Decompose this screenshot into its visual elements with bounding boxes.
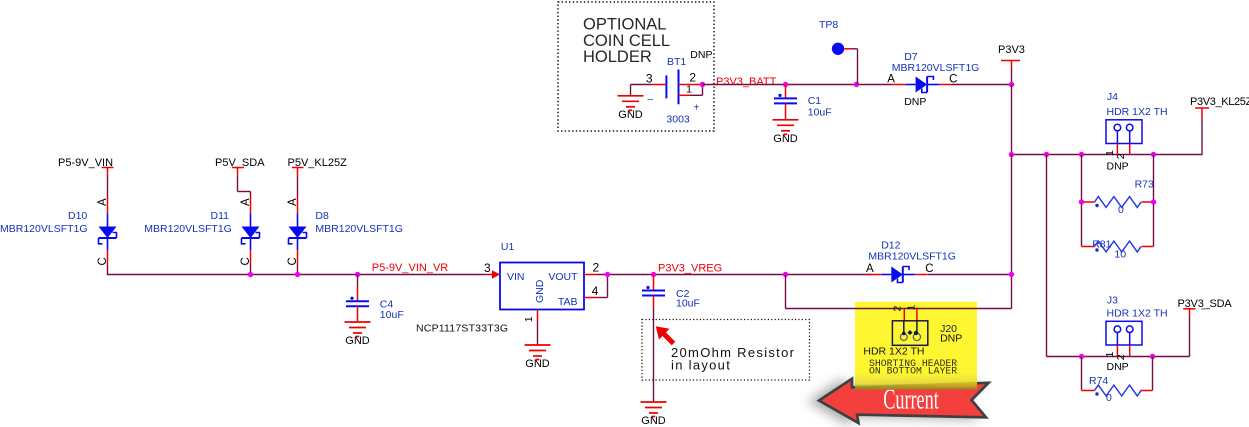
junction P3V3 corner	[1009, 82, 1014, 87]
junction D12 left	[783, 272, 788, 277]
wire C2 to ground	[653, 296, 655, 309]
note box 20mOhm	[642, 320, 810, 381]
svg-text:DNP: DNP	[904, 96, 926, 108]
svg-text:GND: GND	[534, 279, 546, 303]
connector J3	[1106, 321, 1142, 345]
junction D8 bus	[295, 272, 300, 277]
svg-text:–: –	[648, 94, 654, 105]
svg-text:DNP: DNP	[1107, 361, 1129, 373]
wire P3V3_KL25Z stub	[1195, 107, 1209, 109]
svg-text:GND: GND	[641, 415, 666, 427]
resistor R73	[1082, 197, 1154, 208]
svg-text:D10: D10	[68, 210, 87, 222]
svg-text:A: A	[287, 198, 299, 206]
svg-text:C: C	[925, 263, 933, 275]
svg-text:1: 1	[686, 84, 692, 96]
svg-text:P5-9V_VIN_VR: P5-9V_VIN_VR	[372, 262, 448, 274]
J20 pin 2 wire	[903, 309, 905, 321]
svg-text:3: 3	[484, 261, 491, 275]
wire C1 to ground	[785, 103, 787, 119]
highlight yellow box	[855, 302, 977, 390]
junction R73 right	[1151, 199, 1156, 204]
svg-text:3: 3	[646, 72, 653, 86]
capacitor C2 wire	[653, 275, 655, 291]
svg-text:C: C	[97, 257, 109, 265]
svg-text:A: A	[887, 73, 895, 85]
wire J3 feed	[1046, 155, 1048, 357]
U1 pin 3 wire	[486, 274, 493, 276]
svg-text:10uF: 10uF	[380, 309, 404, 321]
J4 pin 1 wire	[1116, 144, 1118, 155]
svg-text:2: 2	[892, 306, 904, 312]
ground C2	[641, 402, 667, 417]
J3 pin 1 wire	[1116, 345, 1118, 357]
U1 pin 2 wire	[584, 274, 598, 276]
junction TP8 tap	[854, 82, 859, 87]
junction bus 1011	[1009, 152, 1014, 157]
resistor R81	[1082, 241, 1154, 252]
BT1 pin 2 wire	[679, 84, 701, 86]
svg-text:DNP: DNP	[940, 332, 962, 344]
svg-text:HDR 1X2 TH: HDR 1X2 TH	[1107, 308, 1168, 320]
ground C1	[773, 120, 799, 135]
svg-text:C: C	[240, 257, 252, 265]
junction D11 bus	[248, 272, 253, 277]
svg-text:TAB: TAB	[558, 296, 578, 308]
junction J3 bus left	[1079, 354, 1084, 359]
capacitor C1	[774, 94, 797, 104]
wire P5-9V_VIN stub	[102, 167, 114, 169]
svg-text:4: 4	[592, 284, 599, 298]
svg-text:VIN: VIN	[507, 271, 525, 283]
resistor R74	[1082, 385, 1153, 396]
svg-text:HDR 1X2 TH: HDR 1X2 TH	[1107, 106, 1168, 118]
svg-text:P3V3_SDA: P3V3_SDA	[1178, 298, 1233, 310]
junction J3 bus right	[1150, 354, 1155, 359]
junction C1 tap	[783, 82, 788, 87]
current arrow banner	[819, 379, 989, 423]
svg-text:MBR120VLSFT1G: MBR120VLSFT1G	[892, 62, 980, 74]
svg-text:1: 1	[523, 316, 535, 322]
wire right vertical	[1011, 155, 1013, 309]
U1 pin 4 wire	[584, 297, 599, 299]
wire R right	[1153, 155, 1155, 247]
ground U1	[525, 345, 551, 360]
wire P5V_SDA stub	[232, 167, 244, 169]
svg-text:GND: GND	[525, 358, 550, 370]
svg-text:P3V3_VREG: P3V3_VREG	[658, 263, 722, 275]
svg-text:0: 0	[1118, 204, 1124, 216]
connector J20	[892, 321, 927, 346]
svg-text:10: 10	[1114, 249, 1126, 261]
junction D12 right	[1009, 272, 1014, 277]
wire D11 to bus	[250, 265, 252, 275]
wire D8 to bus	[297, 265, 299, 275]
svg-text:A: A	[97, 198, 109, 206]
wire P3V3 bus	[1012, 154, 1203, 156]
svg-text:BT1: BT1	[667, 56, 686, 68]
J3 pin 2 wire	[1129, 345, 1131, 357]
U1 pin 1 wire	[537, 310, 539, 323]
regulator U1 box	[500, 263, 584, 310]
svg-text:2: 2	[689, 71, 696, 85]
junction bus 1153	[1151, 152, 1156, 157]
net stub underscore	[1201, 308, 1206, 310]
svg-text:A: A	[866, 263, 874, 275]
svg-text:P3V3: P3V3	[998, 44, 1025, 56]
svg-text:GND: GND	[345, 335, 370, 347]
wire D12 to right	[928, 274, 1011, 276]
svg-text:NCP1117ST33T3G: NCP1117ST33T3G	[416, 323, 508, 335]
junction C4 bus	[355, 272, 360, 277]
capacitor C2	[642, 286, 665, 296]
svg-text:1: 1	[906, 305, 918, 311]
BT1 pin 1 wire	[679, 94, 691, 96]
svg-text:1: 1	[1104, 150, 1116, 156]
diode D10	[99, 197, 117, 265]
svg-text:MBR120VLSFT1G: MBR120VLSFT1G	[868, 250, 956, 262]
junction bus 1081	[1079, 152, 1084, 157]
J20 pin 1 wire	[916, 309, 918, 321]
wire P3V3 stub	[1001, 60, 1020, 62]
diode D8	[289, 197, 307, 265]
svg-text:in layout: in layout	[671, 358, 731, 373]
testpoint TP8	[832, 43, 844, 55]
svg-text:P3V3_KL25Z: P3V3_KL25Z	[1190, 96, 1249, 108]
junction C2 bus	[651, 272, 656, 277]
svg-text:MBR120VLSFT1G: MBR120VLSFT1G	[315, 223, 403, 235]
note arrow red	[663, 333, 674, 344]
wire P3V3 down	[1011, 85, 1013, 155]
svg-text:GND: GND	[618, 109, 643, 121]
svg-text:MBR120VLSFT1G: MBR120VLSFT1G	[0, 223, 88, 235]
svg-text:MBR120VLSFT1G: MBR120VLSFT1G	[144, 223, 232, 235]
note box coin cell	[558, 2, 714, 131]
junction pin2 bus	[605, 272, 610, 277]
wire R74 left	[1081, 357, 1083, 391]
wire P5V_KL25Z stub	[292, 167, 304, 169]
svg-text:10uF: 10uF	[808, 106, 832, 118]
junction BT1 out	[700, 82, 705, 87]
wire VREG bus	[598, 274, 871, 276]
diode D11	[242, 197, 260, 265]
svg-text:3003: 3003	[666, 114, 690, 126]
wire C4 to ground	[357, 306, 359, 322]
svg-text:ON BOTTOM LAYER: ON BOTTOM LAYER	[869, 366, 957, 377]
svg-text:2: 2	[593, 260, 600, 274]
svg-text:1: 1	[1104, 352, 1116, 358]
connector J4	[1106, 120, 1142, 144]
svg-text:D7: D7	[904, 51, 918, 63]
diode D12	[867, 267, 928, 283]
svg-text:OPTIONAL: OPTIONAL	[583, 16, 666, 34]
svg-text:D11: D11	[211, 210, 230, 222]
TP8 wire	[844, 48, 851, 50]
svg-text:R73: R73	[1135, 178, 1154, 190]
svg-text:HDR 1X2 TH: HDR 1X2 TH	[863, 346, 924, 358]
svg-text:DNP: DNP	[690, 49, 712, 61]
svg-text:J3: J3	[1107, 295, 1118, 307]
svg-text:2: 2	[1115, 354, 1127, 360]
wire D7 to P3V3	[952, 84, 1012, 86]
wire battery bus	[703, 84, 892, 86]
svg-text:U1: U1	[501, 241, 515, 253]
wire bypass loop	[785, 275, 787, 309]
svg-text:GND: GND	[773, 133, 798, 145]
BT1 pin 3 wire	[652, 84, 667, 86]
svg-text:D8: D8	[315, 210, 329, 222]
junction R73 left	[1079, 199, 1084, 204]
svg-text:A: A	[240, 198, 252, 206]
battery BT1	[665, 75, 667, 98]
svg-text:10uF: 10uF	[676, 298, 700, 310]
svg-text:DNP: DNP	[1107, 160, 1129, 172]
wire R74 right	[1152, 357, 1154, 391]
svg-text:VOUT: VOUT	[548, 271, 578, 283]
junction bus 1046	[1044, 152, 1049, 157]
J4 pin 2 wire	[1129, 144, 1131, 155]
svg-text:C: C	[949, 73, 957, 85]
svg-text:J4: J4	[1107, 91, 1118, 103]
svg-text:P3V3_BATT: P3V3_BATT	[716, 76, 777, 88]
wire VIN bus	[107, 265, 109, 275]
capacitor C1 wire	[785, 85, 787, 99]
wire R left	[1081, 155, 1083, 247]
diode D7	[891, 77, 952, 93]
svg-text:+: +	[694, 103, 700, 114]
svg-text:C1: C1	[808, 95, 822, 107]
ground C4	[345, 322, 371, 337]
capacitor C4 wire	[357, 275, 359, 288]
capacitor C4	[346, 297, 369, 307]
svg-text:0: 0	[1106, 392, 1112, 404]
svg-text:TP8: TP8	[819, 19, 838, 31]
wire P3V3_SDA stub	[1183, 308, 1195, 310]
svg-text:2: 2	[1115, 153, 1127, 159]
svg-text:HOLDER: HOLDER	[583, 48, 652, 66]
svg-text:C: C	[287, 257, 299, 265]
ground BT1	[618, 96, 644, 111]
